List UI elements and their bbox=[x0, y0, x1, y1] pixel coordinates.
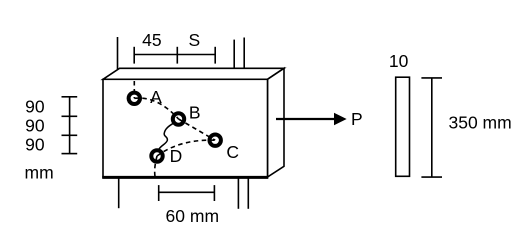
wire bottom-right bar line 2 bbox=[247, 178, 249, 209]
plate bottom edge (thick) bbox=[102, 176, 268, 179]
svg-text:mm: mm bbox=[25, 162, 54, 182]
label 90 top bbox=[25, 96, 45, 116]
svg-text:A: A bbox=[150, 87, 162, 107]
label P bbox=[351, 109, 363, 129]
svg-text:D: D bbox=[170, 146, 183, 166]
label 90 bottom bbox=[25, 134, 45, 154]
label 45 bbox=[142, 30, 161, 50]
svg-text:C: C bbox=[226, 142, 239, 162]
plate right side face bbox=[268, 68, 285, 177]
label 350 mm bbox=[449, 112, 512, 132]
dashed centerline above bolt A bbox=[133, 81, 135, 98]
dashed line below bolt D bbox=[155, 156, 157, 177]
bolt C bbox=[210, 135, 221, 146]
label A bbox=[150, 87, 162, 107]
wire top-right bar line 2 bbox=[243, 38, 245, 70]
right dimension line 350 mm bbox=[421, 78, 442, 177]
label 90 middle bbox=[25, 115, 45, 135]
dashed curve D to C bbox=[157, 140, 215, 156]
bolt D bbox=[151, 150, 162, 161]
dashed line A to B bbox=[134, 98, 178, 119]
svg-text:S: S bbox=[188, 30, 200, 50]
bottom dimension line 60 mm bbox=[159, 185, 215, 201]
side view plate rectangle bbox=[396, 77, 410, 176]
wavy failure line B to D bbox=[158, 123, 174, 152]
label S bbox=[188, 30, 200, 50]
plate top face bbox=[103, 68, 284, 79]
wire top-left bar behind plate bbox=[117, 37, 119, 69]
svg-text:P: P bbox=[351, 109, 363, 129]
wire bottom-left bar bbox=[118, 178, 120, 208]
wire bottom-right bar line 1 bbox=[237, 178, 239, 209]
svg-text:60 mm: 60 mm bbox=[166, 206, 219, 226]
label B bbox=[189, 102, 201, 122]
svg-text:90: 90 bbox=[25, 96, 45, 116]
svg-text:45: 45 bbox=[142, 30, 161, 50]
label mm bbox=[25, 162, 54, 182]
svg-text:10: 10 bbox=[389, 51, 409, 71]
bolt B bbox=[173, 113, 184, 124]
svg-text:350 mm: 350 mm bbox=[449, 112, 512, 132]
dashed line B to C bbox=[179, 119, 216, 140]
wire top-right bar line 1 bbox=[233, 40, 235, 70]
bolt A bbox=[129, 93, 140, 104]
label 60 mm bbox=[166, 206, 219, 226]
svg-text:B: B bbox=[189, 102, 201, 122]
plate front face bbox=[103, 79, 268, 177]
svg-text:90: 90 bbox=[25, 115, 45, 135]
label 10 bbox=[389, 51, 409, 71]
svg-text:90: 90 bbox=[25, 134, 45, 154]
left dimension line 90/90/90 bbox=[62, 97, 78, 154]
top dimension line 45 / S bbox=[134, 47, 215, 64]
label D bbox=[170, 146, 183, 166]
force arrow P bbox=[276, 114, 346, 125]
label C bbox=[226, 142, 239, 162]
